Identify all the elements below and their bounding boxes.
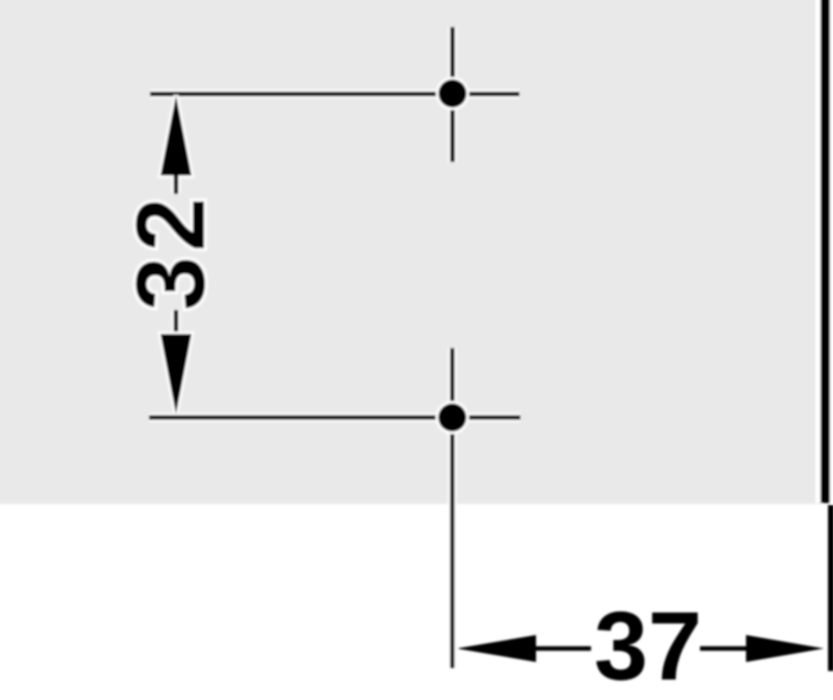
node: upper drill hole dot [436,77,470,111]
wire: upper hole axis vertical tick [448,27,457,162]
dimension 32: line segment above label [172,176,181,195]
panel front edge (thick vertical line) [816,0,833,503]
dimension 37: right line segment [700,646,746,651]
dimension 37: left arrow [457,635,537,662]
wire: upper hole axis horizontal line [150,90,520,99]
svg-text:32: 32 [116,193,225,311]
panel (cabinet side, gray) [0,0,822,504]
wire: lower hole axis vertical line extended down [448,348,457,668]
dimension 32: upper arrow [161,96,192,176]
dimension 37: right arrow [746,635,824,662]
dimension 32: line segment below label [172,310,181,335]
svg-text:37: 37 [594,592,702,700]
dimension 37: left line segment [536,646,591,651]
wire: lower hole axis horizontal line [149,413,521,422]
door edge line (lower right vertical) [828,505,833,671]
dimension 32: lower arrow [161,334,192,414]
node: lower drill hole dot [436,401,470,435]
